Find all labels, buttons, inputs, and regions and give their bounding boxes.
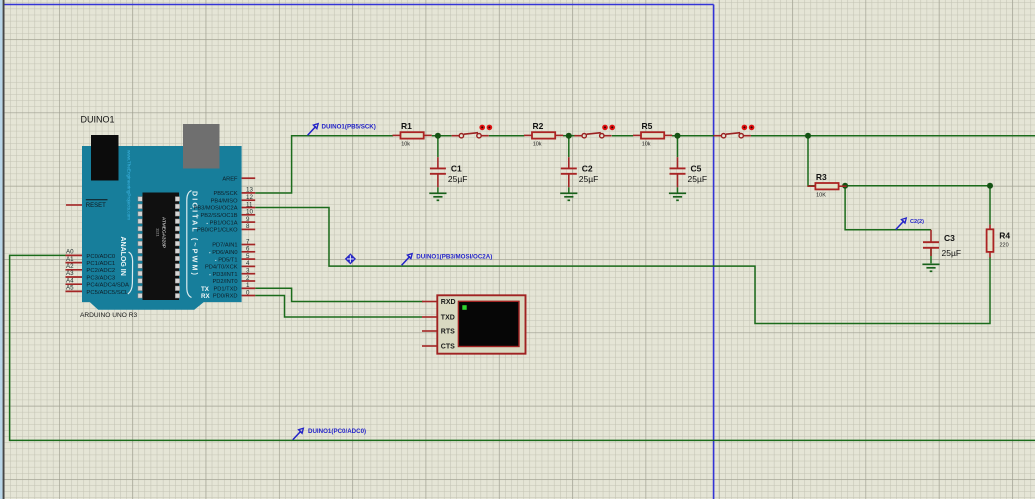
- sheet border (blue): [5, 5, 714, 500]
- svg-text:12: 12: [246, 194, 253, 201]
- svg-text:25µF: 25µF: [448, 174, 468, 184]
- wire C1 lower (to ground): [437, 187, 439, 192]
- svg-text:4: 4: [246, 260, 250, 267]
- arduino board body: [82, 146, 242, 310]
- svg-text:- PD6/AIN0: - PD6/AIN0: [209, 250, 238, 256]
- arduino right pin PB1/OC1A (pin 9): [206, 216, 255, 226]
- wire C2 branch: [568, 136, 570, 158]
- arduino right pin PD3/INT1 (pin 3): [209, 268, 255, 278]
- wire pin0 RXD to terminal TXD: [255, 296, 422, 318]
- wire rail SW1-to-R2: [489, 135, 525, 137]
- svg-text:DIGITAL (~PWM): DIGITAL (~PWM): [190, 191, 199, 277]
- junction at R1/C1: [435, 133, 441, 139]
- svg-text:PD2/INT0: PD2/INT0: [213, 279, 238, 285]
- wire pin11 OC2A to R4 bottom: [255, 208, 990, 324]
- net label DUINO1(PB5/SCK): [308, 124, 376, 136]
- svg-text:- PB2/SS/OC1B: - PB2/SS/OC1B: [197, 213, 238, 219]
- chip socket pads: [138, 197, 180, 298]
- wire R3 riser from rail: [808, 136, 815, 186]
- wire net SCK rail: pin13 riser + segment to R1: [255, 136, 393, 193]
- arduino left pin A3 PC3/ADC3: [66, 270, 116, 281]
- svg-text:R2: R2: [533, 121, 544, 131]
- svg-text:25µF: 25µF: [579, 174, 599, 184]
- capacitor C2: [561, 157, 599, 187]
- svg-text:www.TheEngineeringProjects.com: www.TheEngineeringProjects.com: [127, 150, 132, 220]
- svg-text:1: 1: [246, 282, 250, 289]
- svg-text:1121: 1121: [156, 228, 161, 237]
- resistor R3: [807, 172, 846, 198]
- svg-text:AREF: AREF: [222, 176, 238, 182]
- junction at R5/C5: [675, 133, 681, 139]
- svg-text:11: 11: [246, 201, 253, 208]
- resistor R2: [524, 121, 563, 147]
- svg-text:- PB3/MOSI/OC2A: - PB3/MOSI/OC2A: [190, 206, 238, 212]
- arduino left pin A1 PC1/ADC1: [66, 256, 116, 267]
- svg-text:10k: 10k: [533, 142, 542, 148]
- net label C2(2): [896, 218, 924, 230]
- svg-text:25µF: 25µF: [942, 248, 962, 258]
- ground below C1: [429, 193, 446, 200]
- wire rail SW3-to-right-edge: [751, 135, 1035, 137]
- arduino right pin PD4/T0/XCK (pin 4): [205, 260, 255, 270]
- terminal pin CTS: [422, 345, 437, 347]
- svg-text:R5: R5: [642, 121, 653, 131]
- wire A0 long loop bottom: [10, 255, 1035, 440]
- wire rail R1-to-SW1: [432, 135, 452, 137]
- terminal pin RTS: [422, 330, 437, 332]
- arduino right pin PB0/CP1/CLKO (pin 8): [197, 223, 255, 233]
- svg-text:DUINO1: DUINO1: [81, 115, 115, 125]
- virtual terminal VT1: [422, 295, 526, 353]
- terminal pin TXD: [422, 316, 437, 318]
- junction R3/C3/R4: [842, 183, 848, 189]
- svg-text:R4: R4: [999, 231, 1010, 241]
- wire rail R5-to-SW3: [672, 135, 714, 137]
- wire C3 lower (to ground): [930, 249, 932, 263]
- svg-text:0: 0: [246, 289, 250, 296]
- svg-text:8: 8: [246, 223, 250, 230]
- switch SW3 (after R5): [714, 125, 755, 138]
- svg-text:C3: C3: [944, 233, 955, 243]
- arduino left pin A4 PC4/ADC4/SDA: [66, 277, 130, 288]
- svg-text:PD0/RXD: PD0/RXD: [213, 294, 238, 300]
- arduino left pin A0 PC0/ADC0: [66, 249, 116, 260]
- svg-text:ARDUINO UNO R3: ARDUINO UNO R3: [80, 312, 137, 319]
- ground below C2: [560, 193, 577, 200]
- svg-text:2: 2: [246, 275, 250, 282]
- svg-text:5: 5: [246, 253, 250, 260]
- svg-text:A5: A5: [66, 285, 74, 292]
- net label DUINO1(PB3/MOSI/OC2A): [402, 254, 493, 266]
- junction at R2/C2: [566, 133, 572, 139]
- wire node R3out down to C3: [845, 186, 931, 230]
- wire rail R2-to-SW2: [563, 135, 576, 137]
- svg-text:C5: C5: [691, 163, 702, 173]
- svg-text:PC5/ADC5/SCL: PC5/ADC5/SCL: [86, 290, 129, 296]
- svg-text:PC0/ADC0: PC0/ADC0: [86, 254, 116, 260]
- svg-text:13: 13: [246, 187, 253, 194]
- arduino right pin AREF: [222, 176, 255, 182]
- wire C1 branch: [437, 136, 439, 158]
- svg-text:6: 6: [246, 246, 250, 253]
- switch SW1 (after R1): [452, 125, 493, 138]
- wire C2 lower (to ground): [568, 187, 570, 192]
- atmega chip body: [143, 193, 180, 301]
- svg-text:10: 10: [246, 209, 253, 216]
- svg-text:PC4/ADC4/SDA: PC4/ADC4/SDA: [86, 283, 129, 289]
- svg-text:TXD: TXD: [441, 315, 455, 322]
- arduino left pin A2 PC2/ADC2: [66, 263, 116, 274]
- net label DUINO1(PC0/ADC0): [293, 428, 366, 440]
- svg-text:PB5/SCK: PB5/SCK: [213, 191, 237, 197]
- RESET pin stub: [66, 204, 82, 206]
- svg-text:TX: TX: [201, 286, 210, 293]
- usb connector: [183, 124, 220, 169]
- wire C5 lower (to ground): [677, 187, 679, 192]
- arduino right pin PD7/AIN1 (pin 7): [212, 238, 255, 248]
- wire C5 branch: [677, 136, 679, 158]
- svg-text:9: 9: [246, 216, 250, 223]
- arduino right pin PB5/SCK (pin 13): [213, 187, 255, 197]
- svg-text:C1: C1: [451, 163, 462, 173]
- digital group bracket: [187, 191, 192, 298]
- Arduino Uno module DUINO1: [66, 115, 256, 320]
- capacitor C1: [430, 157, 468, 187]
- svg-text:A4: A4: [66, 277, 74, 284]
- svg-text:PC2/ADC2: PC2/ADC2: [86, 268, 115, 274]
- arduino right pin PB4/MISO (pin 12): [211, 194, 256, 204]
- svg-text:PD4/T0/XCK: PD4/T0/XCK: [205, 265, 238, 271]
- svg-text:- PB1/OC1A: - PB1/OC1A: [206, 220, 238, 226]
- RESET label: [86, 200, 108, 209]
- svg-text:A2: A2: [66, 263, 74, 270]
- switch SW2 (after R2): [574, 125, 615, 138]
- svg-text:ANALOG IN: ANALOG IN: [119, 237, 126, 276]
- junction rail/R3: [805, 133, 811, 139]
- arduino right pin PD1/TXD (pin 1): [213, 282, 255, 292]
- ground below C5: [669, 193, 686, 200]
- svg-text:10k: 10k: [401, 142, 410, 148]
- svg-text:C2: C2: [582, 163, 593, 173]
- svg-text:A3: A3: [66, 270, 74, 277]
- junction R4 top: [987, 183, 993, 189]
- capacitor C3: [923, 230, 961, 258]
- resistor R4 (vertical, 220): [987, 225, 1011, 258]
- svg-text:A1: A1: [66, 256, 74, 263]
- arduino right pin PD6/AIN0 (pin 6): [209, 246, 255, 256]
- svg-text:220: 220: [1000, 243, 1009, 249]
- arduino right pin PD2/INT0 (pin 2): [213, 275, 256, 285]
- svg-text:PD7/AIN1: PD7/AIN1: [212, 243, 237, 249]
- wire rail SW2-to-R5: [612, 135, 633, 137]
- svg-text:3: 3: [246, 268, 250, 275]
- svg-text:CTS: CTS: [441, 344, 455, 351]
- wire R3 out to R4 top node: [845, 186, 990, 225]
- svg-text:A0: A0: [66, 249, 74, 256]
- svg-text:RESET: RESET: [86, 203, 106, 209]
- dc power jack: [91, 135, 119, 181]
- svg-text:DUINO1(PB5/SCK): DUINO1(PB5/SCK): [322, 124, 376, 131]
- svg-text:10k: 10k: [642, 142, 651, 148]
- ground below C3: [922, 264, 939, 271]
- resistor R5: [633, 121, 672, 147]
- svg-text:DUINO1(PC0/ADC0): DUINO1(PC0/ADC0): [308, 428, 366, 435]
- svg-text:RX: RX: [201, 293, 210, 300]
- arduino right pin PB2/SS/OC1B (pin 10): [197, 209, 255, 219]
- terminal pin RXD: [422, 301, 437, 303]
- svg-text:7: 7: [246, 238, 250, 245]
- wire pin1 TXD to terminal RXD: [255, 288, 423, 301]
- svg-text:PB4/MISO: PB4/MISO: [211, 198, 238, 204]
- svg-text:- PD3/INT1: - PD3/INT1: [209, 272, 237, 278]
- arduino right pin PD5/T1 (pin 5): [215, 253, 255, 263]
- svg-text:RTS: RTS: [441, 329, 455, 336]
- svg-text:R3: R3: [816, 172, 827, 182]
- svg-text:C2(2): C2(2): [910, 219, 924, 225]
- svg-text:DUINO1(PB3/MOSI/OC2A): DUINO1(PB3/MOSI/OC2A): [416, 254, 492, 261]
- svg-text:25µF: 25µF: [688, 174, 708, 184]
- capacitor C5: [670, 157, 708, 187]
- svg-text:PB0/CP1/CLKO: PB0/CP1/CLKO: [197, 228, 238, 234]
- arduino left pin A5 PC5/ADC5/SCL: [66, 285, 130, 296]
- svg-text:PC3/ADC3: PC3/ADC3: [86, 275, 116, 281]
- svg-text:R1: R1: [401, 121, 412, 131]
- svg-text:PC1/ADC1: PC1/ADC1: [86, 261, 115, 267]
- resistor R1: [393, 121, 432, 147]
- arduino right pin PD0/RXD (pin 0): [213, 289, 255, 299]
- arduino right pin PB3/MOSI/OC2A (pin 11): [190, 201, 255, 211]
- blue diamond wire marker: [345, 253, 356, 264]
- svg-text:RXD: RXD: [441, 299, 456, 306]
- svg-text:PD1/TXD: PD1/TXD: [213, 287, 237, 293]
- svg-text:10K: 10K: [816, 192, 826, 198]
- svg-text:- PD5/T1: - PD5/T1: [215, 257, 238, 263]
- analog group bracket: [128, 252, 133, 294]
